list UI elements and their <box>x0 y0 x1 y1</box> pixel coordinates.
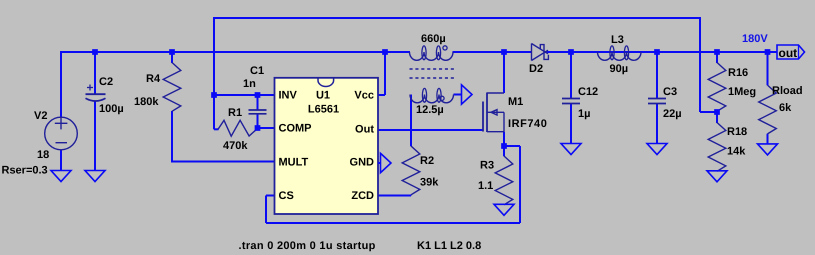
svg-text:M1: M1 <box>508 96 523 108</box>
svg-text:1µ: 1µ <box>578 108 590 120</box>
svg-text:180k: 180k <box>134 96 159 108</box>
svg-text:INV: INV <box>279 90 298 102</box>
svg-text:Out: Out <box>355 124 374 136</box>
svg-text:C3: C3 <box>663 86 677 98</box>
svg-text:14k: 14k <box>727 146 746 158</box>
svg-text:L3: L3 <box>611 34 624 46</box>
svg-text:.tran 0 200m 0 1u startup: .tran 0 200m 0 1u startup <box>239 240 376 252</box>
svg-text:D2: D2 <box>529 63 543 75</box>
svg-text:K1 L1 L2 0.8: K1 L1 L2 0.8 <box>417 240 481 252</box>
svg-text:ZCD: ZCD <box>351 190 374 202</box>
svg-text:L6561: L6561 <box>308 104 339 116</box>
svg-text:90µ: 90µ <box>610 63 629 75</box>
svg-text:18: 18 <box>37 149 49 161</box>
svg-text:R1: R1 <box>228 107 242 119</box>
svg-text:IRF740: IRF740 <box>508 118 547 130</box>
svg-text:22µ: 22µ <box>663 108 682 120</box>
svg-text:6k: 6k <box>779 102 792 114</box>
svg-text:100µ: 100µ <box>99 103 124 115</box>
svg-text:R2: R2 <box>420 155 434 167</box>
svg-text:C12: C12 <box>578 86 598 98</box>
svg-text:180V: 180V <box>742 33 768 45</box>
svg-text:660µ: 660µ <box>421 33 446 45</box>
svg-text:39k: 39k <box>420 177 439 189</box>
svg-text:1n: 1n <box>243 78 256 90</box>
svg-text:470k: 470k <box>223 140 248 152</box>
svg-text:COMP: COMP <box>279 123 312 135</box>
svg-text:Rser=0.3: Rser=0.3 <box>2 165 48 177</box>
svg-text:C1: C1 <box>250 65 264 77</box>
svg-text:V2: V2 <box>34 110 47 122</box>
svg-text:U1: U1 <box>316 90 330 102</box>
svg-text:R18: R18 <box>727 126 747 138</box>
svg-text:GND: GND <box>350 157 375 169</box>
svg-text:MULT: MULT <box>279 157 309 169</box>
svg-text:12.5µ: 12.5µ <box>416 104 444 116</box>
svg-text:1Meg: 1Meg <box>728 86 756 98</box>
svg-text:C2: C2 <box>99 76 113 88</box>
svg-text:CS: CS <box>279 190 294 202</box>
svg-text:Rload: Rload <box>772 85 803 97</box>
svg-text:Vcc: Vcc <box>354 90 374 102</box>
svg-text:R3: R3 <box>480 160 494 172</box>
svg-text:R16: R16 <box>728 67 748 79</box>
svg-text:R4: R4 <box>146 73 161 85</box>
svg-text:1.1: 1.1 <box>478 180 493 192</box>
svg-text:out: out <box>779 46 798 60</box>
